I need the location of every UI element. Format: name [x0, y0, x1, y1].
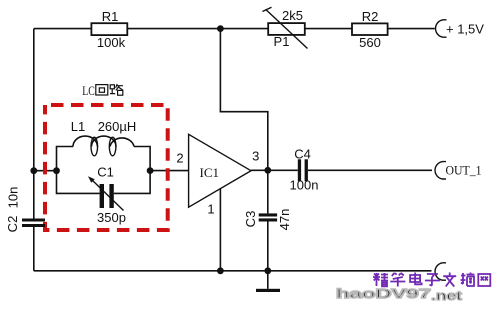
node bottom pin1: [217, 267, 224, 274]
label LC回路: [82, 83, 123, 98]
wire left rail lower (C2 bottom to bottom rail): [33, 227, 35, 271]
node output: [264, 167, 271, 174]
svg-text:LC: LC: [82, 83, 95, 98]
resistor R2: [352, 9, 388, 50]
网: [478, 274, 490, 286]
resistor R1: [91, 9, 127, 50]
wire output node down to C3: [267, 170, 269, 213]
svg-text:C3: C3: [243, 211, 258, 228]
node top junction: [217, 25, 224, 32]
inductor L1: [71, 119, 137, 156]
svg-text:47n: 47n: [277, 209, 292, 231]
svg-text:260µH: 260µH: [98, 119, 137, 134]
精: [373, 273, 388, 286]
svg-text:L1: L1: [71, 119, 85, 134]
svg-text:560: 560: [359, 35, 381, 50]
node tank left: [53, 167, 60, 174]
svg-text:1: 1: [207, 202, 214, 217]
svg-text:100k: 100k: [97, 35, 126, 50]
svg-text:2k5: 2k5: [282, 8, 303, 23]
capacitor C2: [5, 187, 45, 233]
svg-text:C2: C2: [5, 216, 20, 233]
svg-text:C1: C1: [97, 165, 114, 180]
wire op-amp pin 1 down to bottom rail: [219, 189, 221, 271]
wire left rail upper (to C2 top plate): [33, 29, 35, 219]
wire op-amp output to C4: [251, 169, 298, 171]
terminal OUT_1: [435, 162, 481, 179]
svg-text:10n: 10n: [6, 187, 21, 209]
wire bottom rail: [34, 270, 432, 272]
svg-text:C4: C4: [294, 146, 311, 161]
wire C4 to OUT_1 terminal: [308, 169, 432, 171]
svg-text:haoDV97: haoDV97: [336, 286, 431, 301]
svg-text:2: 2: [176, 151, 183, 166]
svg-text:R1: R1: [102, 9, 119, 24]
terminal +1,5V: [436, 20, 485, 37]
node tank right: [147, 167, 154, 174]
华: [390, 273, 405, 287]
子: [425, 274, 440, 286]
terminal bottom right: [435, 263, 446, 280]
variable capacitor C1: [88, 165, 126, 226]
wire tank output to op-amp pin 2: [150, 170, 189, 172]
op-amp IC1: [176, 134, 259, 216]
wire top rail: [34, 28, 435, 30]
purple watermark 精华电子文摘网: [373, 273, 490, 287]
capacitor C3: [243, 209, 292, 231]
svg-text:.net: .net: [431, 288, 463, 303]
potentiometer P1: [263, 7, 308, 49]
svg-text:+ 1,5V: + 1,5V: [446, 22, 484, 37]
svg-text:3: 3: [252, 149, 259, 164]
svg-text:OUT_1: OUT_1: [446, 163, 482, 178]
wire C3 to bottom rail: [267, 222, 269, 271]
文: [443, 273, 456, 287]
svg-text:P1: P1: [274, 34, 290, 49]
摘: [461, 273, 475, 287]
电: [410, 273, 422, 285]
red dashed LC box: [45, 105, 168, 230]
svg-text:IC1: IC1: [200, 165, 220, 180]
capacitor C4: [290, 146, 319, 192]
svg-text:100n: 100n: [290, 178, 319, 193]
gray watermark haoDV97.net: [336, 286, 463, 303]
wire tank input: [34, 170, 57, 172]
wire LC tank loop frame: [57, 147, 151, 194]
svg-text:R2: R2: [362, 9, 379, 24]
ground: [256, 271, 280, 292]
node bottom ground: [264, 267, 271, 274]
wire feedback path (top junction down, right, down to output node): [220, 29, 267, 171]
node left rail tank: [30, 167, 37, 174]
svg-text:350p: 350p: [97, 210, 126, 225]
